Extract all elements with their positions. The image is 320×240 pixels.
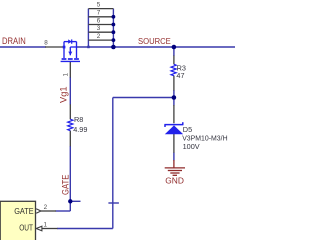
pin R8 bottom bbox=[69, 131, 71, 147]
svg-text:8: 8 bbox=[44, 39, 48, 46]
mosfet gate bar bbox=[61, 60, 80, 62]
svg-text:D5: D5 bbox=[183, 125, 192, 134]
pin 1 gate bbox=[69, 62, 71, 78]
svg-text:Vg1: Vg1 bbox=[59, 86, 69, 103]
wire tick on branch bbox=[108, 202, 119, 204]
junction bus to source wire bbox=[111, 45, 116, 50]
diode D5 bbox=[164, 122, 183, 134]
pin D5 bottom bbox=[173, 134, 175, 153]
svg-text:5: 5 bbox=[97, 1, 101, 8]
wire SOURCE net main horizontal bbox=[77, 46, 236, 48]
wire DRAIN net left segment bbox=[0, 9, 235, 229]
svg-text:GATE: GATE bbox=[14, 206, 34, 216]
resistor R8 bbox=[68, 119, 73, 131]
mosfet drain connection square bbox=[63, 46, 66, 49]
wire GATE net vertical lower bbox=[69, 146, 71, 211]
pin R3 top bbox=[173, 56, 175, 65]
connector pin 1 output glyph bbox=[36, 226, 42, 231]
wire left bus of source pins bbox=[87, 9, 89, 47]
pin 3 bbox=[88, 31, 113, 33]
junction GATE node bbox=[68, 199, 72, 203]
svg-text:3: 3 bbox=[97, 25, 101, 32]
transistor Q1 MOSFET body bbox=[61, 42, 80, 62]
svg-text:OUT: OUT bbox=[19, 222, 33, 232]
svg-text:100V: 100V bbox=[183, 142, 200, 151]
pin connector 1 bbox=[42, 228, 58, 230]
svg-text:47: 47 bbox=[176, 71, 184, 80]
pin 6 bbox=[88, 24, 113, 26]
wire branch horizontal from junction bbox=[113, 97, 174, 99]
wire gate net vertical upper bbox=[69, 77, 71, 105]
resistor R3 bbox=[171, 64, 176, 76]
pin 8 drain bbox=[41, 9, 174, 229]
pin 7 bbox=[88, 16, 113, 18]
junction node below R3 bbox=[172, 95, 177, 100]
wire stub at GATE junction bbox=[71, 200, 81, 202]
pin R3 bottom bbox=[173, 76, 175, 91]
wire right bus of source pins bbox=[112, 9, 114, 47]
svg-text:4.99: 4.99 bbox=[73, 125, 87, 134]
ground bbox=[165, 160, 185, 175]
pin numbers bbox=[43, 1, 100, 228]
junction dots on right bus bbox=[68, 15, 176, 204]
connector J1 body bbox=[0, 201, 35, 240]
svg-text:7: 7 bbox=[97, 10, 101, 17]
wire GATE to pin 2 bbox=[56, 210, 71, 212]
svg-text:2: 2 bbox=[97, 33, 101, 40]
svg-text:R8: R8 bbox=[74, 115, 83, 124]
component labels bbox=[73, 64, 227, 152]
wire source junction to R3 bbox=[173, 47, 175, 56]
svg-text:1: 1 bbox=[62, 73, 69, 77]
svg-text:DRAIN: DRAIN bbox=[2, 36, 26, 46]
mosfet arrow bbox=[68, 52, 72, 56]
junction SOURCE R3 bbox=[172, 45, 177, 50]
mosfet channel stubs bbox=[62, 58, 79, 60]
wire R3 to node junction bbox=[173, 90, 175, 106]
connector pin 2 input glyph bbox=[36, 209, 41, 213]
pin 5 bbox=[88, 8, 113, 10]
wire D5 to GND bbox=[173, 153, 175, 161]
svg-text:SOURCE: SOURCE bbox=[138, 36, 171, 46]
svg-text:2: 2 bbox=[44, 204, 48, 211]
svg-text:6: 6 bbox=[97, 17, 101, 24]
pin R8 top bbox=[69, 104, 71, 119]
svg-text:GND: GND bbox=[165, 176, 184, 186]
mosfet body diode bbox=[68, 39, 72, 43]
wire branch vertical down bbox=[112, 98, 114, 229]
pin connector 2 bbox=[41, 210, 56, 212]
bus connection square bbox=[87, 46, 90, 49]
svg-text:GATE: GATE bbox=[60, 175, 70, 195]
pin D5 top bbox=[173, 105, 175, 123]
pin 2 bbox=[88, 39, 113, 41]
svg-text:1: 1 bbox=[43, 222, 47, 229]
wire OUT net horizontal bbox=[57, 228, 113, 230]
